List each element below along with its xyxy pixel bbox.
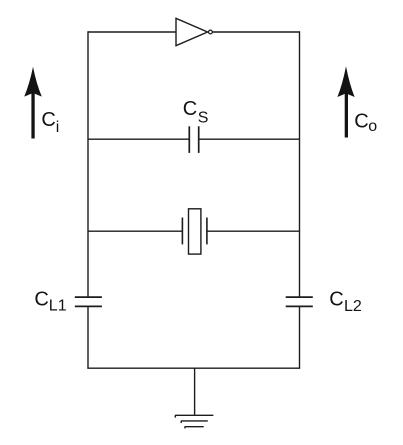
wire right upper xyxy=(299,31,301,297)
wire crystal branch right xyxy=(207,230,300,232)
ground xyxy=(175,368,213,428)
label Co xyxy=(354,110,377,135)
svg-text:o: o xyxy=(368,118,377,135)
wire left lower xyxy=(87,306,89,368)
label CL2 xyxy=(329,289,362,315)
inverter U1 xyxy=(176,18,212,45)
wire CS branch left xyxy=(88,138,189,140)
label CS xyxy=(183,98,209,126)
svg-text:L1: L1 xyxy=(49,298,67,315)
capacitor CS xyxy=(189,126,198,153)
svg-text:C: C xyxy=(354,110,368,132)
wire top left segment xyxy=(88,31,176,33)
wire crystal branch left xyxy=(88,230,182,232)
arrow Co xyxy=(337,66,354,137)
label Ci xyxy=(41,109,59,136)
svg-text:L2: L2 xyxy=(344,298,362,315)
capacitor CL1 xyxy=(75,297,102,306)
svg-text:C: C xyxy=(329,289,343,311)
svg-text:i: i xyxy=(56,119,60,136)
capacitor CL2 xyxy=(286,297,313,306)
svg-text:S: S xyxy=(198,109,209,126)
arrow Ci xyxy=(24,67,42,139)
wire top right segment xyxy=(213,31,300,33)
wire bottom xyxy=(87,367,300,369)
wire right lower xyxy=(299,306,301,368)
label CL1 xyxy=(34,289,66,315)
wire CS branch right xyxy=(199,138,300,140)
wire left upper xyxy=(87,31,89,297)
svg-text:C: C xyxy=(34,289,48,311)
svg-text:C: C xyxy=(41,109,55,131)
svg-text:C: C xyxy=(183,98,197,120)
crystal X1 xyxy=(182,209,207,254)
